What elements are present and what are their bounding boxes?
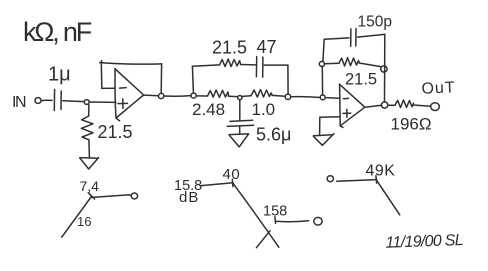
wire cap branch down	[239, 100, 241, 121]
node B	[191, 93, 196, 98]
bode plot 2 corner freq 40	[223, 166, 241, 183]
units label kOhm,nF	[23, 17, 92, 47]
svg-text:11/19/00 SL: 11/19/00 SL	[385, 232, 463, 252]
node end circle	[131, 193, 137, 199]
node A	[84, 100, 89, 105]
svg-text:IN: IN	[12, 94, 26, 111]
value label 2.48	[192, 100, 225, 119]
node C junction	[238, 96, 242, 100]
svg-text:49K: 49K	[366, 163, 396, 180]
svg-text:kΩ, nF: kΩ, nF	[23, 17, 92, 47]
bode plot 2 slope	[233, 183, 279, 247]
bode plot 2 second corner tick	[274, 217, 277, 224]
wire	[63, 100, 84, 103]
svg-text:21.5: 21.5	[212, 38, 247, 58]
svg-text:1.0: 1.0	[252, 100, 276, 119]
label IN	[12, 94, 26, 111]
node D	[285, 94, 291, 99]
wire non-inverting to ground	[320, 117, 340, 135]
resistor R4 21.5	[220, 59, 241, 67]
label OUT	[421, 79, 456, 97]
wire	[384, 34, 386, 102]
capacitor C1 1u	[54, 90, 61, 111]
svg-text:21.5: 21.5	[98, 122, 133, 142]
capacitor C2 47	[256, 57, 263, 78]
value label 21.5	[98, 122, 133, 142]
node output terminal	[431, 103, 440, 111]
op-amp U2	[339, 84, 365, 128]
bode plot 2 unit label dB	[179, 189, 199, 206]
bode plot 3 zero label	[327, 176, 333, 182]
bode plot 1 level line	[91, 195, 132, 198]
svg-text:1μ: 1μ	[48, 64, 71, 86]
capacitor C4 150p	[351, 29, 356, 47]
svg-text:196Ω: 196Ω	[391, 115, 432, 134]
date and initials 11/19/00 SL	[385, 232, 463, 252]
wire parallel branch down	[287, 65, 289, 94]
bode plot 2 corner tick	[231, 179, 234, 186]
bode plot 2 level line	[200, 183, 233, 186]
value label 150p	[358, 14, 392, 31]
bode plot 1 corner tick	[88, 193, 94, 199]
wire	[324, 62, 339, 65]
svg-text:OuT: OuT	[421, 79, 456, 97]
value label 196 Ohm	[391, 115, 432, 134]
wire	[321, 66, 323, 95]
value label 47	[257, 37, 277, 57]
wire	[144, 94, 158, 97]
svg-text:dB: dB	[179, 189, 199, 206]
wire	[192, 65, 219, 66]
resistor R1 21.5	[81, 116, 93, 140]
svg-text:16: 16	[77, 214, 91, 229]
bode plot 3 slope	[377, 181, 400, 215]
node U2 output	[381, 102, 387, 108]
wire	[359, 63, 380, 67]
value label 21.5	[212, 38, 247, 58]
value label 1.0	[252, 100, 276, 119]
wire	[196, 95, 207, 97]
bode plot 2 corner freq 158	[263, 204, 287, 220]
svg-text:150p: 150p	[358, 14, 392, 31]
bode plot 2 crossing slash	[256, 231, 270, 248]
bode plot 2 level label 15.8	[174, 178, 202, 194]
wire	[323, 39, 324, 61]
capacitor C3 5.6u	[227, 120, 253, 126]
svg-text:2.48: 2.48	[192, 100, 225, 119]
wire	[358, 34, 385, 37]
value label 21.5	[345, 71, 377, 89]
wire	[264, 64, 288, 66]
bode plot 3 corner freq 49K	[366, 163, 396, 180]
wire	[88, 140, 91, 157]
value label 5.6u	[256, 125, 291, 145]
bode plot 3 level line	[337, 180, 377, 182]
resistor R6 196	[395, 100, 414, 108]
wire	[365, 105, 381, 107]
wire	[272, 94, 285, 97]
bode plot 1 slope	[62, 196, 92, 237]
ground	[229, 134, 249, 147]
wire	[414, 105, 431, 106]
wire	[239, 126, 241, 133]
node end circle	[314, 217, 322, 225]
wire parallel branch up-left	[192, 66, 193, 93]
bode plot 1 corner freq 16	[77, 214, 91, 229]
wire	[88, 105, 90, 116]
wire	[325, 97, 339, 100]
svg-text:21.5: 21.5	[345, 71, 377, 89]
resistor R5 21.5	[339, 58, 359, 66]
wire	[388, 104, 395, 106]
bode plot 1 level label 7,4	[80, 178, 100, 194]
wire to op-amp input	[89, 101, 116, 103]
op-amp U1	[115, 69, 144, 121]
bode plot 3 corner tick	[375, 176, 378, 183]
wire	[241, 64, 256, 66]
wire	[41, 99, 52, 101]
node U1 output	[159, 93, 164, 98]
ground	[80, 157, 98, 160]
node input terminal	[35, 98, 41, 104]
node E inverting input	[320, 95, 325, 100]
wire feedback U1	[100, 61, 162, 94]
resistor R2 2.48	[208, 90, 229, 97]
node G	[381, 66, 387, 72]
svg-text:7,4: 7,4	[80, 178, 100, 194]
wire	[164, 95, 191, 98]
svg-text:40: 40	[223, 166, 241, 183]
value label 1u	[48, 64, 71, 86]
wire	[291, 96, 321, 99]
svg-text:47: 47	[257, 37, 277, 57]
wire	[324, 38, 349, 39]
node F	[319, 61, 324, 66]
wire	[242, 95, 251, 98]
ground	[314, 135, 333, 136]
svg-text:5.6μ: 5.6μ	[256, 125, 291, 145]
resistor R3 1.0	[251, 90, 272, 97]
bode plot 2 second level line	[276, 221, 309, 222]
wire	[229, 95, 238, 97]
